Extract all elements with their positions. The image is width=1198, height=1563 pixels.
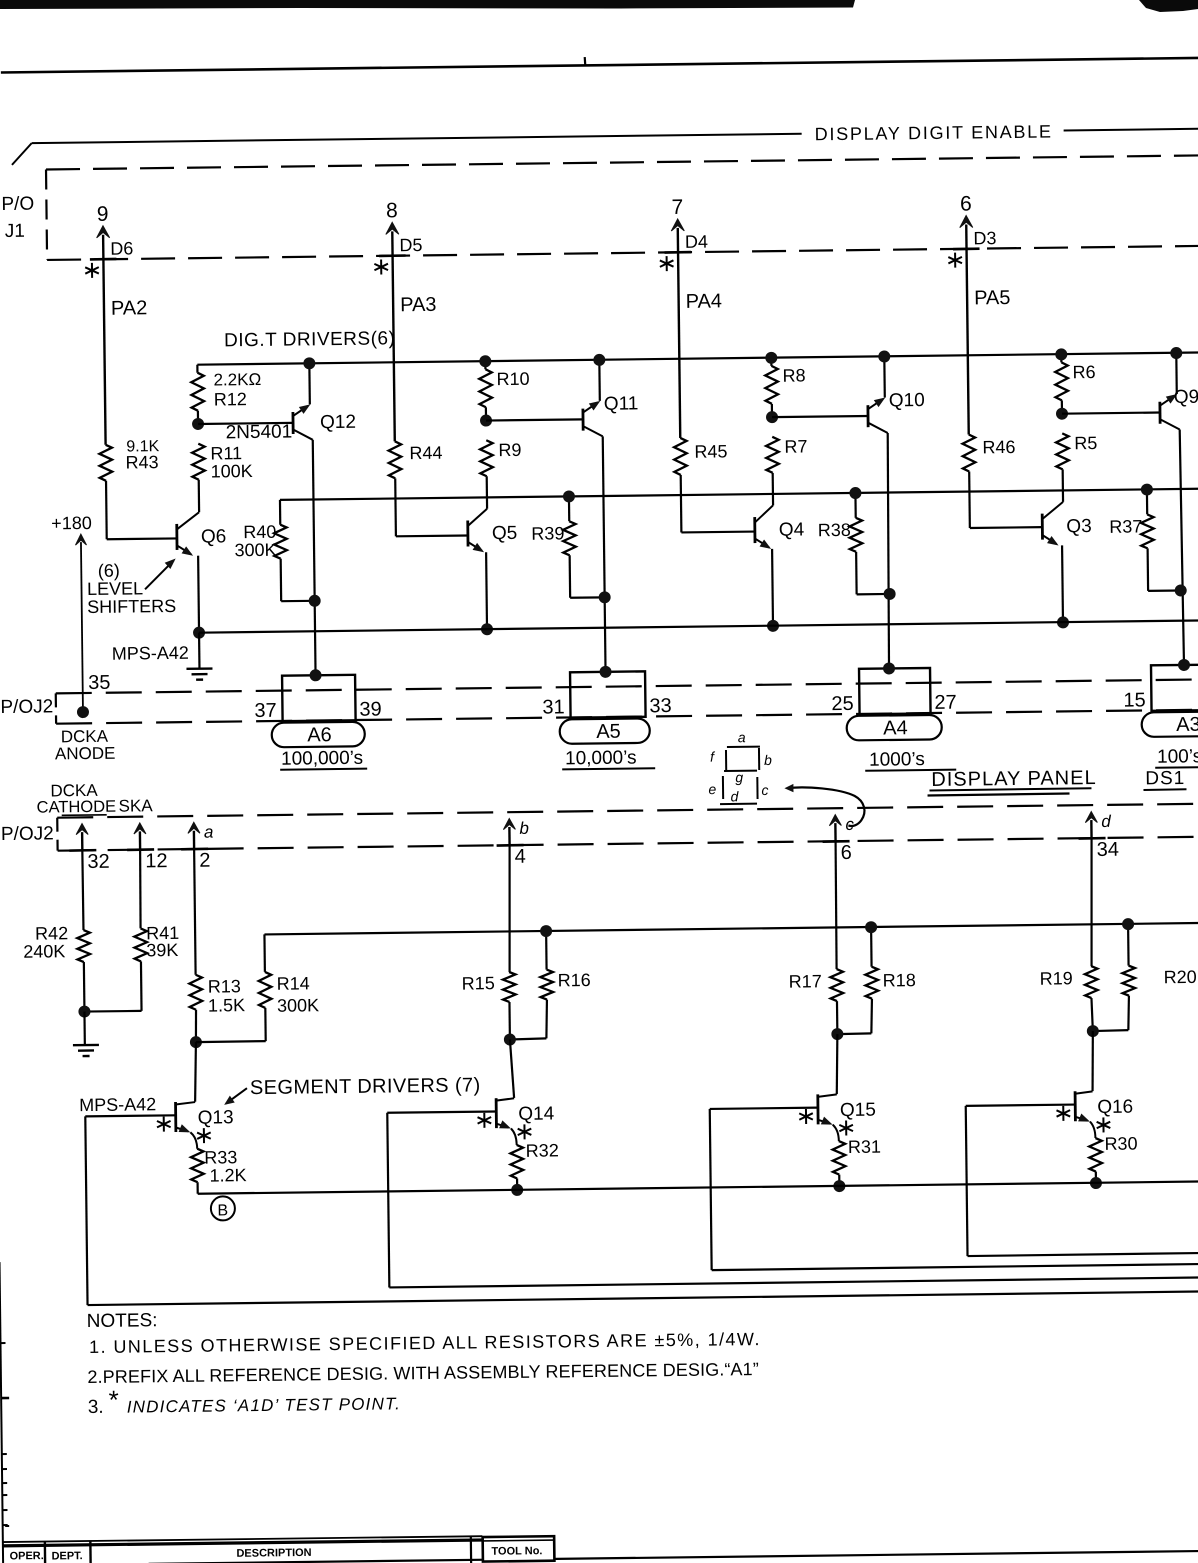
resistor R8 (765, 357, 806, 403)
svg-text:39K: 39K (146, 940, 178, 960)
svg-text:R44: R44 (409, 443, 442, 463)
wire: top horizontal rule (1, 58, 1198, 73)
svg-text:7: 7 (671, 196, 683, 219)
label DS1 (underlined) (1143, 768, 1186, 790)
wire Q10 collector to A4 (886, 433, 890, 669)
resistor R5 (1056, 433, 1098, 469)
wire: pin tick 34 (1079, 837, 1106, 840)
svg-text:240K: 240K (23, 941, 65, 961)
svg-text:ANODE: ANODE (55, 744, 116, 764)
svg-text:R19: R19 (1040, 968, 1073, 988)
label 10,000’s (562, 747, 655, 769)
transistor Q9 2N5401 (1159, 353, 1198, 430)
wire: pin tick D5 (379, 254, 406, 257)
wire PA4 from J1-7 down to R45 (678, 252, 680, 437)
svg-text:R14: R14 (277, 973, 310, 993)
resistor R33 (191, 1147, 247, 1186)
node: collector at A4 (883, 662, 895, 674)
svg-text:Q15: Q15 (840, 1100, 876, 1121)
title block cell divider DESCRIPTION/TOOL (470, 1537, 473, 1563)
node: R10 top on rail (479, 355, 491, 367)
svg-text:R12: R12 (214, 389, 247, 409)
svg-text:R16: R16 (558, 970, 591, 990)
wire R41 to ground junction (84, 961, 142, 1011)
svg-text:PA3: PA3 (400, 294, 437, 316)
wire R8 to base node (771, 404, 773, 417)
svg-text:D4: D4 (685, 232, 708, 252)
svg-text:TOOL No.: TOOL No. (491, 1545, 542, 1558)
node: R40 bottom junction (309, 595, 321, 607)
anode designator bubble A6 (272, 722, 365, 748)
wire R17 to junction (836, 1001, 839, 1034)
svg-text:3.: 3. (88, 1397, 104, 1418)
svg-text:R18: R18 (883, 970, 916, 990)
svg-text:INDICATES ‘A1D’ TEST POINT.: INDICATES ‘A1D’ TEST POINT. (127, 1394, 401, 1416)
wire R15 to junction (508, 1002, 511, 1039)
svg-text:PA2: PA2 (111, 297, 148, 319)
svg-text:Q14: Q14 (518, 1103, 555, 1124)
resistor R38 (817, 493, 889, 595)
wire Q15 base feedback loop (710, 1103, 1198, 1270)
title block top thin rule (2, 1536, 482, 1542)
node J1 pin 9 (D6) arrow (96, 203, 110, 260)
svg-text:R7: R7 (784, 436, 807, 456)
resistor R32 (510, 1140, 559, 1178)
svg-text:2: 2 (199, 850, 210, 872)
wire R45 through bias bus down to Q4 base (681, 474, 755, 532)
svg-text:NOTES:: NOTES: (87, 1310, 158, 1332)
title block cell divider OPER/DEPT (44, 1542, 47, 1563)
node: Q13 collector junction (190, 1036, 202, 1048)
test point asterisk at D6 (85, 263, 99, 278)
wire R6 to base node (1061, 400, 1063, 413)
node J2 cathode pin 2 arrow (188, 822, 200, 849)
transistor Q12 2N5401 (225, 363, 356, 444)
connector J1 dashed strip bottom edge (47, 246, 1198, 260)
node: R37 bottom junction (1175, 584, 1187, 596)
resistor R42 240K (23, 923, 90, 963)
node: R16 top on bus (540, 925, 552, 937)
svg-text:A4: A4 (883, 717, 908, 739)
svg-text:R39: R39 (531, 523, 564, 543)
wire: level shifter collector-load bus (280, 489, 1198, 500)
wire PA2 from J1-9 down to R43 (103, 259, 105, 444)
node B circled (211, 1196, 235, 1220)
svg-text:b: b (519, 819, 529, 838)
svg-text:DISPLAY DIGIT ENABLE: DISPLAY DIGIT ENABLE (815, 121, 1053, 144)
node: Q3 emitter on ground rail (1057, 616, 1069, 628)
display digit block A5 package box (570, 671, 646, 717)
svg-text:R9: R9 (498, 440, 521, 460)
anode designator bubble A3 (1142, 712, 1198, 737)
resistor R45 (674, 437, 728, 475)
display digit block A3 package box (1151, 664, 1198, 710)
svg-text:25: 25 (831, 693, 854, 715)
resistor R18 (836, 927, 916, 1034)
svg-text:g: g (735, 769, 743, 785)
svg-text:D5: D5 (399, 235, 422, 255)
wire R31 to emitter bus (838, 1175, 840, 1186)
svg-text:35: 35 (88, 672, 111, 694)
wire R5 down to level shifter collector (1062, 469, 1065, 501)
transistor Q10 2N5401 (867, 356, 925, 433)
node: Q9 emitter on rail (1170, 347, 1182, 359)
svg-text:R32: R32 (526, 1140, 559, 1160)
transistor Q11 2N5401 (582, 359, 638, 436)
svg-text:SHIFTERS: SHIFTERS (87, 596, 176, 617)
svg-text:1.5K: 1.5K (208, 995, 245, 1015)
svg-text:P/OJ2: P/OJ2 (0, 696, 53, 718)
resistor R6 (1055, 354, 1096, 400)
svg-text:+180: +180 (51, 513, 92, 533)
svg-text:100’s: 100’s (1157, 746, 1198, 768)
resistor R43 9.1K (99, 438, 160, 481)
wire: pin tick 2 (181, 847, 208, 850)
svg-text:33: 33 (649, 695, 672, 717)
test point asterisk at D4 (660, 256, 674, 271)
wire: Q13 collector junction to Q13 (194, 1042, 196, 1102)
svg-text:J1: J1 (5, 221, 25, 242)
svg-text:DISPLAY PANEL: DISPLAY PANEL (931, 767, 1097, 791)
svg-text:34: 34 (1097, 839, 1120, 861)
note 3 (87, 1381, 401, 1418)
wire: pin tick 32 (69, 849, 96, 852)
node: R42/R41 ground junction (78, 1005, 90, 1017)
transistor Q13 segment driver (176, 1101, 234, 1149)
svg-text:Q6: Q6 (201, 526, 227, 547)
wire Q6 emitter to ground (198, 633, 201, 669)
node: Q11 emitter on rail (593, 354, 605, 366)
test point asterisk Q16 emitter (1097, 1117, 1111, 1132)
node: R37 top on bus (1141, 484, 1153, 496)
wire Q16 base feedback loop (966, 1103, 1198, 1256)
node: J2 pin 35 (77, 706, 89, 718)
wire R32 to emitter bus (516, 1178, 518, 1189)
resistor R16 (509, 931, 592, 1040)
node: base junction R10/R9 (480, 414, 492, 426)
svg-text:MPS-A42: MPS-A42 (79, 1094, 156, 1115)
svg-text:R13: R13 (208, 976, 241, 996)
wire Q14 base feedback loop (387, 1103, 1198, 1287)
svg-text:PA4: PA4 (686, 290, 723, 312)
svg-text:R6: R6 (1072, 362, 1095, 382)
wire junction to ground (83, 1012, 86, 1045)
test point asterisk Q13 emitter (197, 1128, 211, 1143)
connector P/O J2 (cathode) top dashed edge (57, 804, 1198, 818)
svg-text:D3: D3 (973, 228, 996, 248)
wire Q11 collector to A5 (603, 436, 606, 671)
wire R12 to base node (197, 411, 199, 424)
svg-text:b: b (764, 752, 772, 768)
resistor R46 (962, 434, 1015, 472)
svg-text:6: 6 (841, 842, 852, 864)
connector P/O J2 (anode) top dashed edge (56, 679, 1198, 693)
display digit block A6 package box (282, 675, 356, 721)
svg-text:Q4: Q4 (779, 519, 805, 540)
svg-text:B: B (217, 1202, 228, 1219)
svg-text:SKA: SKA (118, 796, 153, 815)
wire: header rule left segment (32, 134, 802, 143)
resistor R19 (1040, 966, 1098, 999)
svg-text:a: a (738, 729, 746, 745)
svg-text:R38: R38 (818, 520, 851, 540)
label DCKA CATHODE SKA (36, 780, 153, 816)
wire: leader arrow to level shifter (145, 558, 176, 589)
svg-text:CATHODE: CATHODE (37, 798, 117, 817)
node: R38 bottom junction (884, 588, 896, 600)
svg-text:Q12: Q12 (320, 412, 356, 433)
wire: header rule right segment (1064, 129, 1198, 131)
resistor R7 (766, 436, 808, 472)
wire base node to Q10 (772, 416, 868, 417)
svg-text:8: 8 (386, 199, 398, 222)
svg-text:R20: R20 (1164, 967, 1197, 987)
connector J1 dashed strip left edge (46, 169, 47, 259)
svg-text:R30: R30 (1104, 1134, 1137, 1154)
wire base node to Q9 (1062, 413, 1160, 414)
test point asterisk at D5 (374, 259, 388, 274)
svg-text:D6: D6 (110, 238, 133, 258)
svg-text:100,000’s: 100,000’s (281, 748, 363, 770)
resistor R37 (1109, 489, 1181, 591)
resistor R17 (789, 969, 844, 1002)
node: base junction R8/R7 (766, 411, 778, 423)
svg-text:39: 39 (359, 699, 382, 721)
svg-text:R15: R15 (462, 973, 495, 993)
wire: segment driver emitter bus (198, 1181, 1198, 1193)
wire: pin tick 4 (497, 844, 524, 847)
node: R32 on emitter bus (511, 1184, 523, 1196)
resistor R40 (234, 500, 315, 602)
resistor R12 (191, 364, 262, 411)
test point asterisk Q13 base-emitter (157, 1117, 171, 1132)
svg-text:9: 9 (97, 203, 109, 226)
wire pin12 to R41 (140, 850, 141, 929)
test point asterisk Q14 emitter (518, 1124, 532, 1139)
svg-text:SEGMENT DRIVERS (7): SEGMENT DRIVERS (7) (250, 1074, 481, 1099)
node: R6 top on rail (1055, 348, 1067, 360)
svg-text:6: 6 (960, 192, 972, 215)
svg-text:1000’s: 1000’s (869, 749, 925, 771)
resistor R31 (832, 1137, 881, 1175)
svg-text:27: 27 (934, 692, 957, 714)
wire: curved leader from segment c to pin c net (784, 783, 864, 827)
svg-text:Q16: Q16 (1097, 1097, 1133, 1118)
wire +180 arrow to J2-35 (75, 534, 88, 712)
wire R7 down to level shifter collector (772, 473, 775, 505)
svg-text:A3: A3 (1176, 714, 1198, 736)
node: R39 bottom junction (599, 591, 611, 603)
resistor R9 (480, 440, 522, 476)
svg-text:300K: 300K (234, 540, 276, 560)
title block TOOL No. box (483, 1536, 555, 1561)
wire: pin tick D3 (953, 247, 980, 250)
svg-text:31: 31 (542, 696, 565, 718)
svg-text:MPS-A42: MPS-A42 (112, 643, 189, 664)
node: Q12 emitter on rail (303, 357, 315, 369)
node: Q6 emitter on ground rail (193, 627, 205, 639)
svg-text:Q9: Q9 (1174, 387, 1198, 408)
svg-text:Q5: Q5 (492, 523, 518, 544)
wire R33 to emitter bus (196, 1182, 198, 1193)
wire pin d(34) to R19 (1090, 838, 1093, 966)
label 1000’s (865, 749, 956, 771)
node: Q5 emitter on ground rail (481, 623, 493, 635)
wire: segment driver base bus (264, 923, 1198, 935)
test point asterisk Q16 base-emitter (1056, 1106, 1070, 1121)
svg-text:OPER.: OPER. (9, 1550, 43, 1562)
wire R30 to emitter bus (1095, 1172, 1097, 1183)
wire: pin tick D6 (90, 258, 117, 261)
svg-text:Q10: Q10 (889, 390, 925, 411)
svg-text:c: c (761, 782, 768, 798)
resistor R11 (192, 443, 253, 482)
transistor Q14 segment driver (496, 1097, 555, 1145)
svg-text:2N5401: 2N5401 (226, 422, 293, 444)
node: Q10 emitter on rail (878, 350, 890, 362)
svg-text:P/O: P/O (1, 194, 34, 215)
connector P/O J2 (anode) left dashed edge (55, 693, 58, 723)
node J2 cathode pin 4 arrow (503, 818, 515, 845)
wire base node to Q12 (198, 423, 293, 424)
svg-text:e: e (708, 781, 716, 797)
wire R10 to base node (485, 407, 487, 420)
node J2 cathode pin 12 arrow (134, 823, 146, 850)
svg-text:a: a (204, 823, 214, 842)
wire pin b(4) to R15 (508, 845, 511, 972)
wire: level shifter emitter ground rail (199, 620, 1198, 632)
connector P/O J2 (anode) bottom dashed edge (56, 710, 1198, 724)
wire junction to Q16 collector (1092, 1031, 1094, 1091)
wire junction to Q15 collector (836, 1034, 838, 1094)
wire: small tick on top rule (584, 57, 587, 66)
wire: pin tick 6 (823, 840, 850, 843)
ground symbol below R42/R41 (73, 1045, 99, 1056)
title block heavy rule (2, 1540, 482, 1546)
label DCKA ANODE (55, 727, 116, 764)
svg-text:DIG.T DRIVERS(6): DIG.T DRIVERS(6) (224, 328, 396, 351)
node J2 cathode pin 32 arrow (76, 824, 88, 851)
svg-text:d: d (730, 788, 739, 804)
svg-text:d: d (1101, 812, 1111, 831)
node: R39 top on bus (563, 490, 575, 502)
label (6) LEVEL SHIFTERS (87, 560, 177, 617)
border: left page edge (0, 1262, 11, 1563)
node: Q14 collector junction (504, 1033, 516, 1045)
svg-text:Q3: Q3 (1066, 516, 1092, 537)
svg-text:P/OJ2: P/OJ2 (1, 823, 54, 845)
svg-text:R43: R43 (125, 452, 158, 472)
wire pin32 to R42 (82, 850, 83, 930)
node: collector at A3 (1178, 659, 1190, 671)
wire base node to Q11 (486, 419, 583, 420)
connector P/O J2 (cathode) bottom dashed edge (58, 837, 1198, 851)
resistor R30 (1089, 1134, 1138, 1172)
node: Q15 collector junction (831, 1028, 843, 1040)
connector J1 dashed strip top edge (46, 155, 1198, 169)
resistor R44 (388, 441, 442, 479)
ground symbol below Q6 (186, 669, 212, 680)
wire: digit driver emitter rail (197, 352, 1198, 364)
svg-text:A5: A5 (596, 721, 621, 743)
transistor Q6 MPS-A42 level shifter (177, 512, 228, 633)
anode designator bubble A4 (847, 715, 942, 741)
wire Q12 collector to A6 (313, 440, 316, 675)
wire Q13 base feedback loop (85, 1103, 1198, 1305)
wire R43 to Q6 base (106, 480, 177, 539)
title block cell divider DEPT/DESCRIPTION (89, 1541, 92, 1563)
connector P/O J2 (cathode) left dashed edge (56, 818, 59, 851)
wire R46 through bias bus down to Q3 base (969, 471, 1042, 528)
svg-text:DESCRIPTION: DESCRIPTION (236, 1547, 311, 1560)
resistor R41 39K (134, 923, 179, 962)
node: R38 top on bus (849, 487, 861, 499)
svg-text:32: 32 (87, 851, 110, 873)
resistor R15 (462, 972, 516, 1003)
wire junction to Q14 collector (510, 1039, 514, 1098)
wire R19 to junction (1091, 998, 1092, 1031)
node: base junction R6/R5 (1056, 408, 1068, 420)
svg-text:15: 15 (1123, 689, 1146, 711)
svg-text:R10: R10 (496, 369, 529, 389)
svg-text:DEPT.: DEPT. (51, 1550, 82, 1562)
wire R11 down to level shifter collector (198, 480, 201, 512)
svg-text:R8: R8 (782, 365, 805, 385)
test point asterisk Q15 emitter (839, 1120, 853, 1135)
node: R20 top on bus (1122, 918, 1134, 930)
svg-text:2.2KΩ: 2.2KΩ (213, 370, 261, 390)
svg-text:100K: 100K (211, 461, 253, 481)
svg-text:*: * (108, 1385, 118, 1415)
label DISPLAY PANEL (double underline) (927, 767, 1097, 796)
node: collector at A6 (309, 669, 321, 681)
wire R42 to ground junction (83, 962, 86, 1011)
svg-text:1.2K: 1.2K (209, 1165, 246, 1185)
title block row bottom border (149, 1551, 1198, 1563)
wire: pin tick D4 (665, 251, 692, 254)
seven-segment reference symbol (708, 729, 773, 805)
wire: header leader diagonal (12, 143, 32, 165)
transistor Q16 segment driver (1075, 1091, 1133, 1139)
test point asterisk at D3 (948, 253, 962, 268)
test point asterisk Q15 base-emitter (799, 1109, 813, 1124)
transistor Q4 MPS-A42 level shifter (755, 505, 806, 626)
test point asterisk Q14 base-emitter (477, 1113, 491, 1128)
node: Q16 collector junction (1087, 1025, 1099, 1037)
wire R13 to Q13 collector node (194, 1010, 197, 1042)
node J2 cathode pin 34 arrow (1085, 811, 1097, 838)
anode designator bubble A5 (560, 718, 650, 744)
transistor Q15 segment driver (818, 1094, 876, 1142)
label P/O J1 (1, 194, 34, 242)
resistor R14 300K (258, 934, 319, 1041)
node: Q4 emitter on ground rail (767, 620, 779, 632)
svg-text:300K: 300K (277, 995, 319, 1015)
svg-text:DS1: DS1 (1145, 768, 1185, 789)
wire PA3 from J1-8 down to R44 (393, 256, 395, 441)
svg-text:R46: R46 (982, 437, 1015, 457)
svg-text:Q13: Q13 (198, 1107, 234, 1128)
wire Q9 collector to A3 (1180, 429, 1184, 665)
svg-text:12: 12 (145, 850, 168, 872)
node: base junction R12/R11 (192, 418, 204, 430)
svg-text:A6: A6 (307, 724, 332, 746)
svg-text:37: 37 (254, 700, 277, 722)
svg-text:R45: R45 (694, 441, 727, 461)
transistor Q3 MPS-A42 level shifter (1042, 502, 1093, 623)
svg-text:R17: R17 (789, 971, 822, 991)
node: collector at A5 (599, 666, 611, 678)
